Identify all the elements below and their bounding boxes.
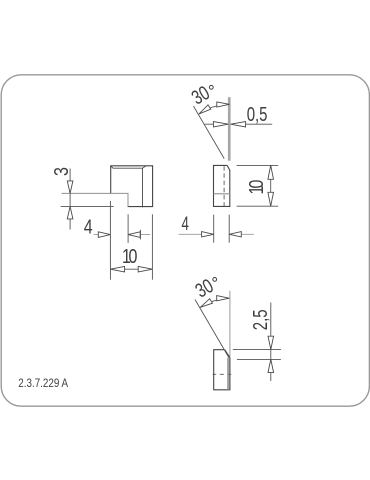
dim 10 (view1) : arrow right (points right) (138, 266, 152, 272)
dashed centerline (223, 166, 225, 206)
dim 4 (view2) : arrow right (points left) (229, 232, 241, 237)
dim 2,5 : extension lines (233, 349, 281, 359)
dim 10 (view2) : arrow top (points up) (268, 165, 274, 179)
dim 10 (view2) : arrow bottom (points down) (268, 192, 274, 206)
dim 3 : arrow upper (points down) (67, 181, 73, 194)
dim 3 : dimension line vertical (69, 169, 71, 230)
dim 2,5 : dimension line (270, 303, 272, 382)
degree symbol (view 3) (213, 278, 217, 282)
svg-text:4: 4 (84, 216, 93, 238)
dim 3 : extension line lower (dark) (61, 205, 114, 207)
svg-text:0: 0 (128, 245, 137, 267)
svg-text:0: 0 (245, 180, 267, 189)
dim 0,5 : dimension line segments (205, 123, 273, 125)
dim 10 (view1) : extension line right (151, 214, 153, 279)
degree symbol (view 2) (209, 85, 213, 89)
dim 4 (view2) : arrow left (points right) (202, 232, 214, 237)
svg-text:2,5: 2,5 (249, 309, 272, 330)
dim 10 (view2) : extension lines (237, 165, 279, 206)
svg-text:3: 3 (51, 167, 73, 176)
part outline with chamfer top-right (214, 350, 230, 390)
30deg dimension arc (199, 104, 229, 114)
dim 4 (view1) : arrow back bar (139, 230, 141, 240)
svg-text:2.3.7.229 A: 2.3.7.229 A (18, 377, 68, 390)
30deg arc arrow on diagonal (200, 299, 212, 308)
drawing sheet border (rounded) (1, 75, 369, 406)
dim 0,5 : arrow left (points right) (213, 122, 228, 127)
part outline (dark) (111, 166, 153, 207)
notch lines (gray) with left extension for dim 3 (62, 193, 128, 206)
dim 4 (view2) : dimension line (gray) (179, 233, 254, 235)
30deg chamfer construction diagonal (194, 106, 225, 159)
dim 2,5 : arrow lower (points up) (268, 359, 274, 372)
dim 4 (view1) : extension lines (109, 201, 111, 280)
dim 4 (view1) : arrow left (points right) (98, 232, 110, 238)
30deg arc arrow on diagonal (199, 105, 211, 114)
inner bend line top (dark) (111, 166, 146, 168)
dim 4 (view2) : extension lines (214, 215, 230, 243)
svg-text:0,5: 0,5 (247, 103, 268, 126)
part outline with chamfer top-right (214, 165, 230, 206)
30deg arc arrow on vertical (217, 102, 230, 107)
extension line vertical (gray) (229, 291, 231, 357)
bend line (gray) (214, 193, 231, 195)
dim 3 : arrow lower (points up) (67, 206, 73, 219)
dim 2,5 : arrow upper (points down) (268, 336, 274, 349)
dim 4 (view1) : arrow right (points left) (128, 232, 140, 238)
dim 10 (view1) : dimension line (110, 268, 152, 270)
extension band for 0,5 (gray, view 2) (228, 97, 231, 161)
dim 10 (view2) : dimension line (270, 165, 272, 206)
dim 4 (view1) : dimension line (gray) (94, 234, 151, 236)
svg-text:4: 4 (182, 214, 189, 235)
chamfer face band (gray, view 3) (227, 358, 229, 390)
dim 10 (view1) : arrow left (points left) (110, 266, 124, 272)
30deg dimension arc (200, 298, 229, 307)
30deg arc arrow on vertical (217, 296, 230, 301)
inner bend line vertical (dark) (142, 168, 144, 207)
dim 0,5 : arrow right (points left) (231, 122, 246, 127)
dash-dot centerline (213, 373, 232, 375)
30deg chamfer construction diagonal (195, 300, 229, 358)
